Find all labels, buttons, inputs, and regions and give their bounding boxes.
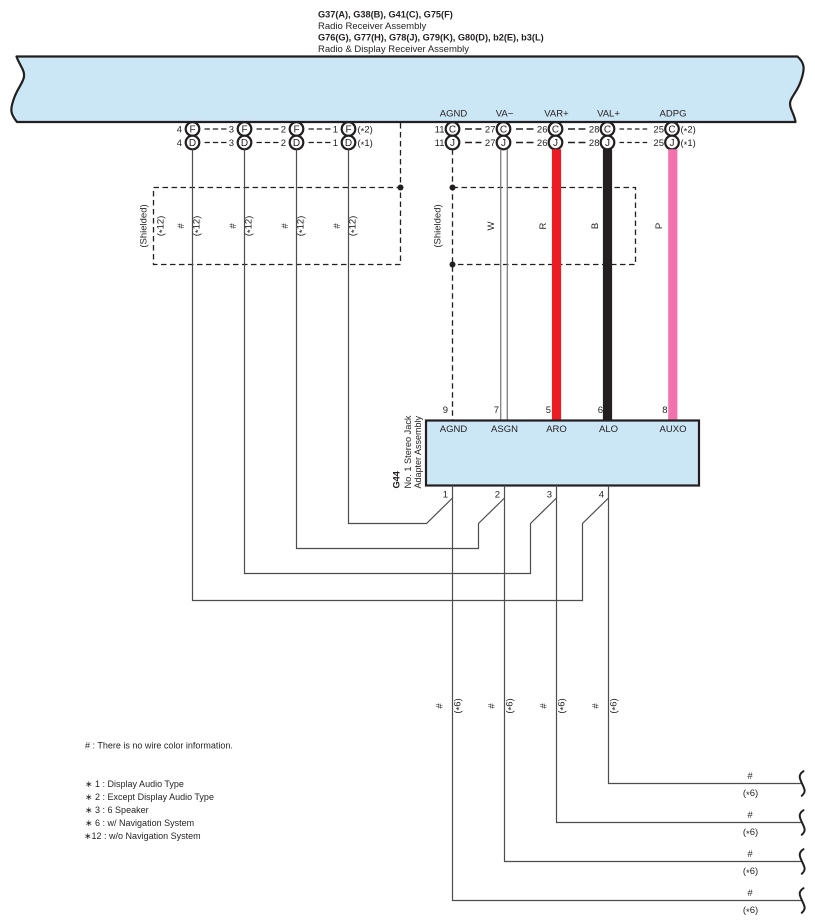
svg-text:2: 2 bbox=[281, 124, 286, 135]
svg-text:∗ 1 : Display Audio Type: ∗ 1 : Display Audio Type bbox=[85, 779, 184, 789]
svg-text:No. 1 Stereo Jack: No. 1 Stereo Jack bbox=[403, 415, 413, 488]
connector pin 26 (C row / J row) bbox=[537, 122, 586, 149]
svg-text:D: D bbox=[293, 138, 300, 149]
svg-text:AUXO: AUXO bbox=[660, 424, 687, 435]
svg-text:J: J bbox=[450, 138, 455, 149]
svg-text:∗ 6 : w/ Navigation System: ∗ 6 : w/ Navigation System bbox=[85, 818, 194, 828]
svg-text:(*2): (*2) bbox=[358, 124, 373, 137]
svg-text:25: 25 bbox=[653, 124, 664, 135]
svg-text:7: 7 bbox=[494, 405, 499, 416]
svg-text:(Shielded): (Shielded) bbox=[433, 204, 444, 247]
svg-text:∗ 2 : Except Display Audio Typ: ∗ 2 : Except Display Audio Type bbox=[85, 792, 214, 802]
wire: left pin 4 to G44 pin 4 (no color info) bbox=[193, 149, 609, 600]
svg-text:J: J bbox=[605, 138, 610, 149]
svg-text:27: 27 bbox=[485, 138, 496, 149]
svg-text:(*6): (*6) bbox=[453, 698, 466, 713]
svg-text:2: 2 bbox=[281, 138, 286, 149]
svg-text:Adapter Assembly: Adapter Assembly bbox=[413, 415, 423, 488]
svg-text:F: F bbox=[241, 124, 247, 135]
svg-text:Radio & Display Receiver Assem: Radio & Display Receiver Assembly bbox=[318, 44, 469, 55]
svg-text:ASGN: ASGN bbox=[491, 424, 518, 435]
svg-text:(*6): (*6) bbox=[743, 866, 758, 879]
svg-text:#: # bbox=[487, 703, 498, 709]
svg-text:#: # bbox=[747, 771, 753, 782]
svg-text:4: 4 bbox=[599, 490, 604, 501]
svg-text:G44: G44 bbox=[392, 470, 402, 488]
svg-text:R: R bbox=[538, 222, 549, 229]
svg-text:#: # bbox=[747, 888, 753, 899]
svg-text:VAL+: VAL+ bbox=[597, 109, 620, 120]
svg-text:4: 4 bbox=[177, 124, 182, 135]
svg-text:∗ 3 : 6 Speaker: ∗ 3 : 6 Speaker bbox=[85, 805, 149, 815]
svg-text:C: C bbox=[668, 124, 675, 135]
svg-text:ADPG: ADPG bbox=[660, 109, 687, 120]
svg-text:(*12): (*12) bbox=[192, 216, 205, 237]
junction dot right shield top-left bbox=[450, 185, 456, 191]
wire: G44 pin 3 to right edge (no color info) bbox=[557, 486, 802, 823]
wire: G44 pin 2 to right edge (no color info) bbox=[505, 486, 802, 862]
svg-text:25: 25 bbox=[653, 138, 664, 149]
connector pin 11 (C row / J row) bbox=[435, 122, 482, 149]
svg-text:(*6): (*6) bbox=[505, 698, 518, 713]
connector pin 27 (C row / J row) bbox=[485, 122, 534, 149]
svg-text:3: 3 bbox=[229, 124, 234, 135]
AGND shield wire (dashed) pin 11 to G44 pin 9 bbox=[452, 149, 454, 420]
svg-text:4: 4 bbox=[177, 138, 182, 149]
VAR+ wire R (red) pin 26 to G44 pin 5 bbox=[552, 149, 561, 420]
svg-text:3: 3 bbox=[229, 138, 234, 149]
svg-text:G76(G), G77(H), G78(J), G79(K): G76(G), G77(H), G78(J), G79(K), G80(D), … bbox=[318, 33, 544, 43]
ASGN wire W (white, double line) pin 27 to G44 pin 7 bbox=[500, 149, 502, 420]
svg-text:#: # bbox=[747, 849, 753, 860]
svg-text:J: J bbox=[553, 138, 558, 149]
svg-text:1: 1 bbox=[333, 138, 338, 149]
svg-text:VA−: VA− bbox=[496, 109, 514, 120]
wire: G44 pin 1 to right edge (no color info) bbox=[453, 486, 802, 901]
svg-text:2: 2 bbox=[495, 490, 500, 501]
svg-text:C: C bbox=[552, 124, 559, 135]
junction dot at left shield box top-right bbox=[398, 185, 404, 191]
svg-text:# : There is no wire color inf: # : There is no wire color information. bbox=[85, 741, 233, 751]
svg-text:#: # bbox=[539, 703, 550, 709]
svg-text:11: 11 bbox=[435, 138, 445, 149]
ADPG wire P (pink) pin 25 to G44 pin 8 bbox=[668, 149, 677, 420]
connector pin 2 (F row / D row) bbox=[281, 122, 331, 149]
svg-text:#: # bbox=[435, 703, 446, 709]
svg-text:#: # bbox=[591, 703, 602, 709]
svg-text:1: 1 bbox=[333, 124, 338, 135]
svg-text:(*6): (*6) bbox=[557, 698, 570, 713]
svg-text:27: 27 bbox=[485, 124, 496, 135]
svg-text:B: B bbox=[590, 223, 601, 229]
wire: left pin 2 to G44 pin 2 (no color info) bbox=[297, 149, 505, 548]
wire: left pin 3 to G44 pin 3 (no color info) bbox=[245, 149, 557, 573]
dashed link between pins bbox=[516, 128, 534, 130]
svg-text:W: W bbox=[486, 221, 497, 230]
dashed link between pins bbox=[205, 128, 227, 130]
svg-text:F: F bbox=[189, 124, 195, 135]
svg-text:(*6): (*6) bbox=[743, 827, 758, 840]
svg-text:#: # bbox=[176, 223, 187, 229]
dashed link between pins bbox=[568, 128, 586, 130]
svg-text:(*2): (*2) bbox=[681, 124, 696, 137]
dashed link between pins bbox=[620, 128, 648, 130]
svg-text:(*1): (*1) bbox=[681, 138, 696, 151]
svg-text:11: 11 bbox=[435, 124, 445, 135]
svg-text:J: J bbox=[670, 138, 675, 149]
svg-text:#: # bbox=[228, 223, 239, 229]
connector pin 4 (F row / D row) bbox=[177, 122, 227, 149]
svg-text:(*6): (*6) bbox=[743, 905, 758, 918]
svg-text:F: F bbox=[293, 124, 299, 135]
shield drain dashed wire from band to left shield box bbox=[400, 123, 402, 188]
VAL+ wire B (black) pin 28 to G44 pin 6 bbox=[603, 149, 612, 420]
svg-text:(Shielded): (Shielded) bbox=[139, 204, 150, 247]
svg-text:C: C bbox=[604, 124, 611, 135]
svg-text:#: # bbox=[280, 223, 291, 229]
left shield box (dashed) bbox=[154, 188, 401, 265]
svg-text:AGND: AGND bbox=[440, 109, 468, 120]
wire: G44 pin 4 to right edge (no color info) bbox=[609, 486, 802, 784]
svg-text:VAR+: VAR+ bbox=[544, 109, 569, 120]
svg-text:6: 6 bbox=[598, 405, 603, 416]
svg-text:AGND: AGND bbox=[440, 424, 468, 435]
wire break symbol at right edge bbox=[800, 771, 805, 796]
wire break symbol at right edge bbox=[800, 888, 805, 913]
connector pin 3 (F row / D row) bbox=[229, 122, 279, 149]
svg-text:1: 1 bbox=[443, 490, 448, 501]
svg-text:#: # bbox=[747, 810, 753, 821]
wire: left pin 1 to G44 pin 1 (no color info) bbox=[349, 149, 453, 523]
svg-text:D: D bbox=[189, 138, 196, 149]
radio receiver assembly band (ECU block with break edges) bbox=[11, 57, 803, 123]
connector pin 28 (C row / J row) bbox=[589, 122, 648, 149]
svg-text:26: 26 bbox=[537, 138, 548, 149]
svg-text:28: 28 bbox=[589, 124, 600, 135]
svg-text:28: 28 bbox=[589, 138, 600, 149]
right shield box (dashed) bbox=[453, 188, 636, 265]
connector pin 1 (F row / D row) bbox=[333, 122, 356, 149]
wire break symbol at right edge bbox=[800, 810, 805, 835]
connector pin 25 (C row / J row) bbox=[653, 122, 678, 149]
component header: radio receiver assembly designators bbox=[318, 10, 544, 55]
dashed link between pins bbox=[309, 128, 331, 130]
band pin labels AGND VA- VAR+ VAL+ ADPG bbox=[440, 109, 687, 120]
svg-text:(*6): (*6) bbox=[609, 698, 622, 713]
svg-text:F: F bbox=[345, 124, 351, 135]
svg-text:(*1): (*1) bbox=[358, 138, 373, 151]
svg-text:J: J bbox=[501, 138, 506, 149]
svg-text:D: D bbox=[345, 138, 352, 149]
svg-text:3: 3 bbox=[547, 490, 552, 501]
svg-text:26: 26 bbox=[537, 124, 548, 135]
svg-text:ARO: ARO bbox=[546, 424, 567, 435]
dashed link between pins bbox=[257, 128, 279, 130]
svg-text:(*12): (*12) bbox=[156, 216, 169, 237]
svg-text:C: C bbox=[500, 124, 507, 135]
svg-text:8: 8 bbox=[662, 405, 667, 416]
svg-text:C: C bbox=[449, 124, 456, 135]
junction dot right shield bottom-left bbox=[450, 262, 456, 268]
svg-text:ALO: ALO bbox=[599, 424, 618, 435]
svg-text:Radio Receiver Assembly: Radio Receiver Assembly bbox=[318, 21, 426, 32]
wire break symbol at right edge bbox=[800, 849, 805, 874]
G44 No.1 Stereo Jack Adapter Assembly block bbox=[426, 421, 699, 486]
svg-text:∗12 : w/o Navigation System: ∗12 : w/o Navigation System bbox=[84, 831, 201, 841]
svg-text:(*12): (*12) bbox=[296, 216, 309, 237]
dashed link between pins bbox=[465, 128, 482, 130]
svg-text:D: D bbox=[241, 138, 248, 149]
svg-text:(*6): (*6) bbox=[743, 788, 758, 801]
svg-text:#: # bbox=[332, 223, 343, 229]
svg-text:G37(A), G38(B), G41(C), G75(F): G37(A), G38(B), G41(C), G75(F) bbox=[318, 10, 453, 20]
svg-text:5: 5 bbox=[546, 405, 551, 416]
legend of variant marks bbox=[84, 779, 214, 841]
svg-text:(*12): (*12) bbox=[348, 216, 361, 237]
svg-text:9: 9 bbox=[443, 405, 448, 416]
svg-text:P: P bbox=[654, 223, 665, 229]
svg-text:(*12): (*12) bbox=[244, 216, 257, 237]
